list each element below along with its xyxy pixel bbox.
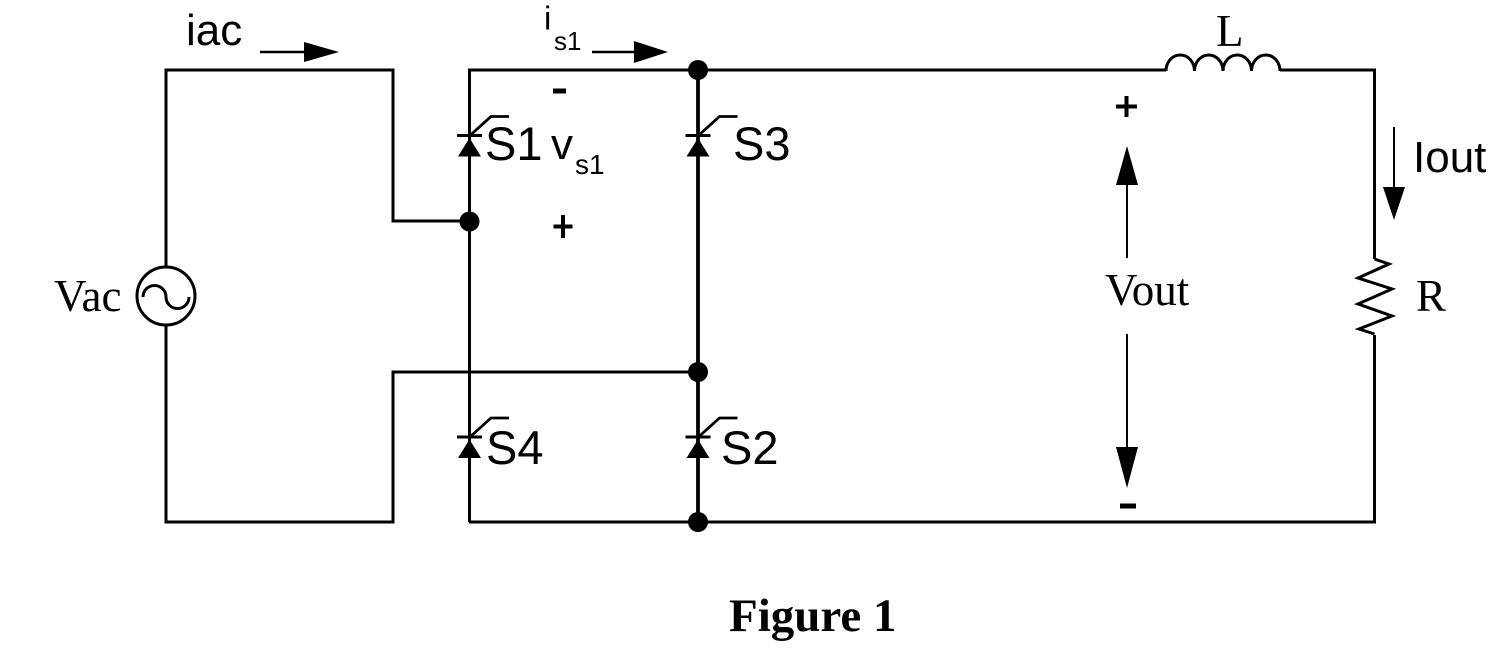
- svg-text:iac: iac: [186, 6, 242, 55]
- svg-text:S1: S1: [485, 117, 543, 170]
- svg-text:S2: S2: [721, 421, 779, 474]
- wire from resistor bottom along bottom rail: [469, 335, 1375, 522]
- label i_s1: [544, 0, 581, 56]
- wire from Vac bottom terminal to bridge right-leg midpoint: [166, 325, 694, 522]
- polarity plus of Vout: [1116, 96, 1137, 117]
- current arrow Iout: [1383, 127, 1405, 220]
- voltage source Vac: [137, 267, 195, 325]
- svg-text:Figure 1: Figure 1: [729, 590, 897, 642]
- voltage arrow Vout upper (pointing up): [1116, 146, 1138, 258]
- svg-text:v: v: [551, 120, 573, 169]
- thyristor S2: [686, 418, 738, 458]
- thyristor S1: [457, 117, 509, 157]
- wire from Vac top terminal to bridge left-leg midpoint: [166, 70, 466, 268]
- svg-text:s1: s1: [554, 26, 581, 56]
- thyristor S4: [457, 418, 509, 458]
- current arrow i_s1: [592, 41, 668, 63]
- thyristor S3: [686, 117, 738, 157]
- svg-text:R: R: [1416, 271, 1446, 321]
- junction node: right leg midpoint: [688, 362, 708, 382]
- wire right bridge leg: [696, 70, 700, 522]
- svg-text:s1: s1: [575, 149, 605, 180]
- svg-text:Iout: Iout: [1413, 133, 1486, 182]
- resistor R: [1358, 259, 1392, 334]
- junction node: left leg midpoint: [460, 212, 480, 232]
- label v_s1: [551, 120, 605, 180]
- svg-text:Vac: Vac: [54, 271, 121, 321]
- svg-text:S3: S3: [733, 117, 791, 170]
- junction node: bottom rail / S2 anode: [688, 512, 708, 532]
- voltage arrow Vout lower (pointing down): [1116, 334, 1138, 488]
- svg-text:i: i: [544, 0, 551, 37]
- wire from inductor to resistor (load top corner): [1280, 70, 1375, 259]
- junction node: top rail / S3 cathode: [688, 60, 708, 80]
- wire top rail of bridge: [470, 70, 1167, 522]
- polarity minus of Vout: [1120, 504, 1136, 509]
- svg-text:L: L: [1216, 6, 1244, 56]
- inductor L: [1166, 55, 1280, 71]
- current arrow iac: [260, 42, 339, 62]
- polarity minus of v_s1: [553, 89, 566, 94]
- polarity plus of v_s1: [554, 215, 573, 238]
- svg-text:Vout: Vout: [1105, 265, 1190, 315]
- svg-text:S4: S4: [486, 421, 544, 474]
